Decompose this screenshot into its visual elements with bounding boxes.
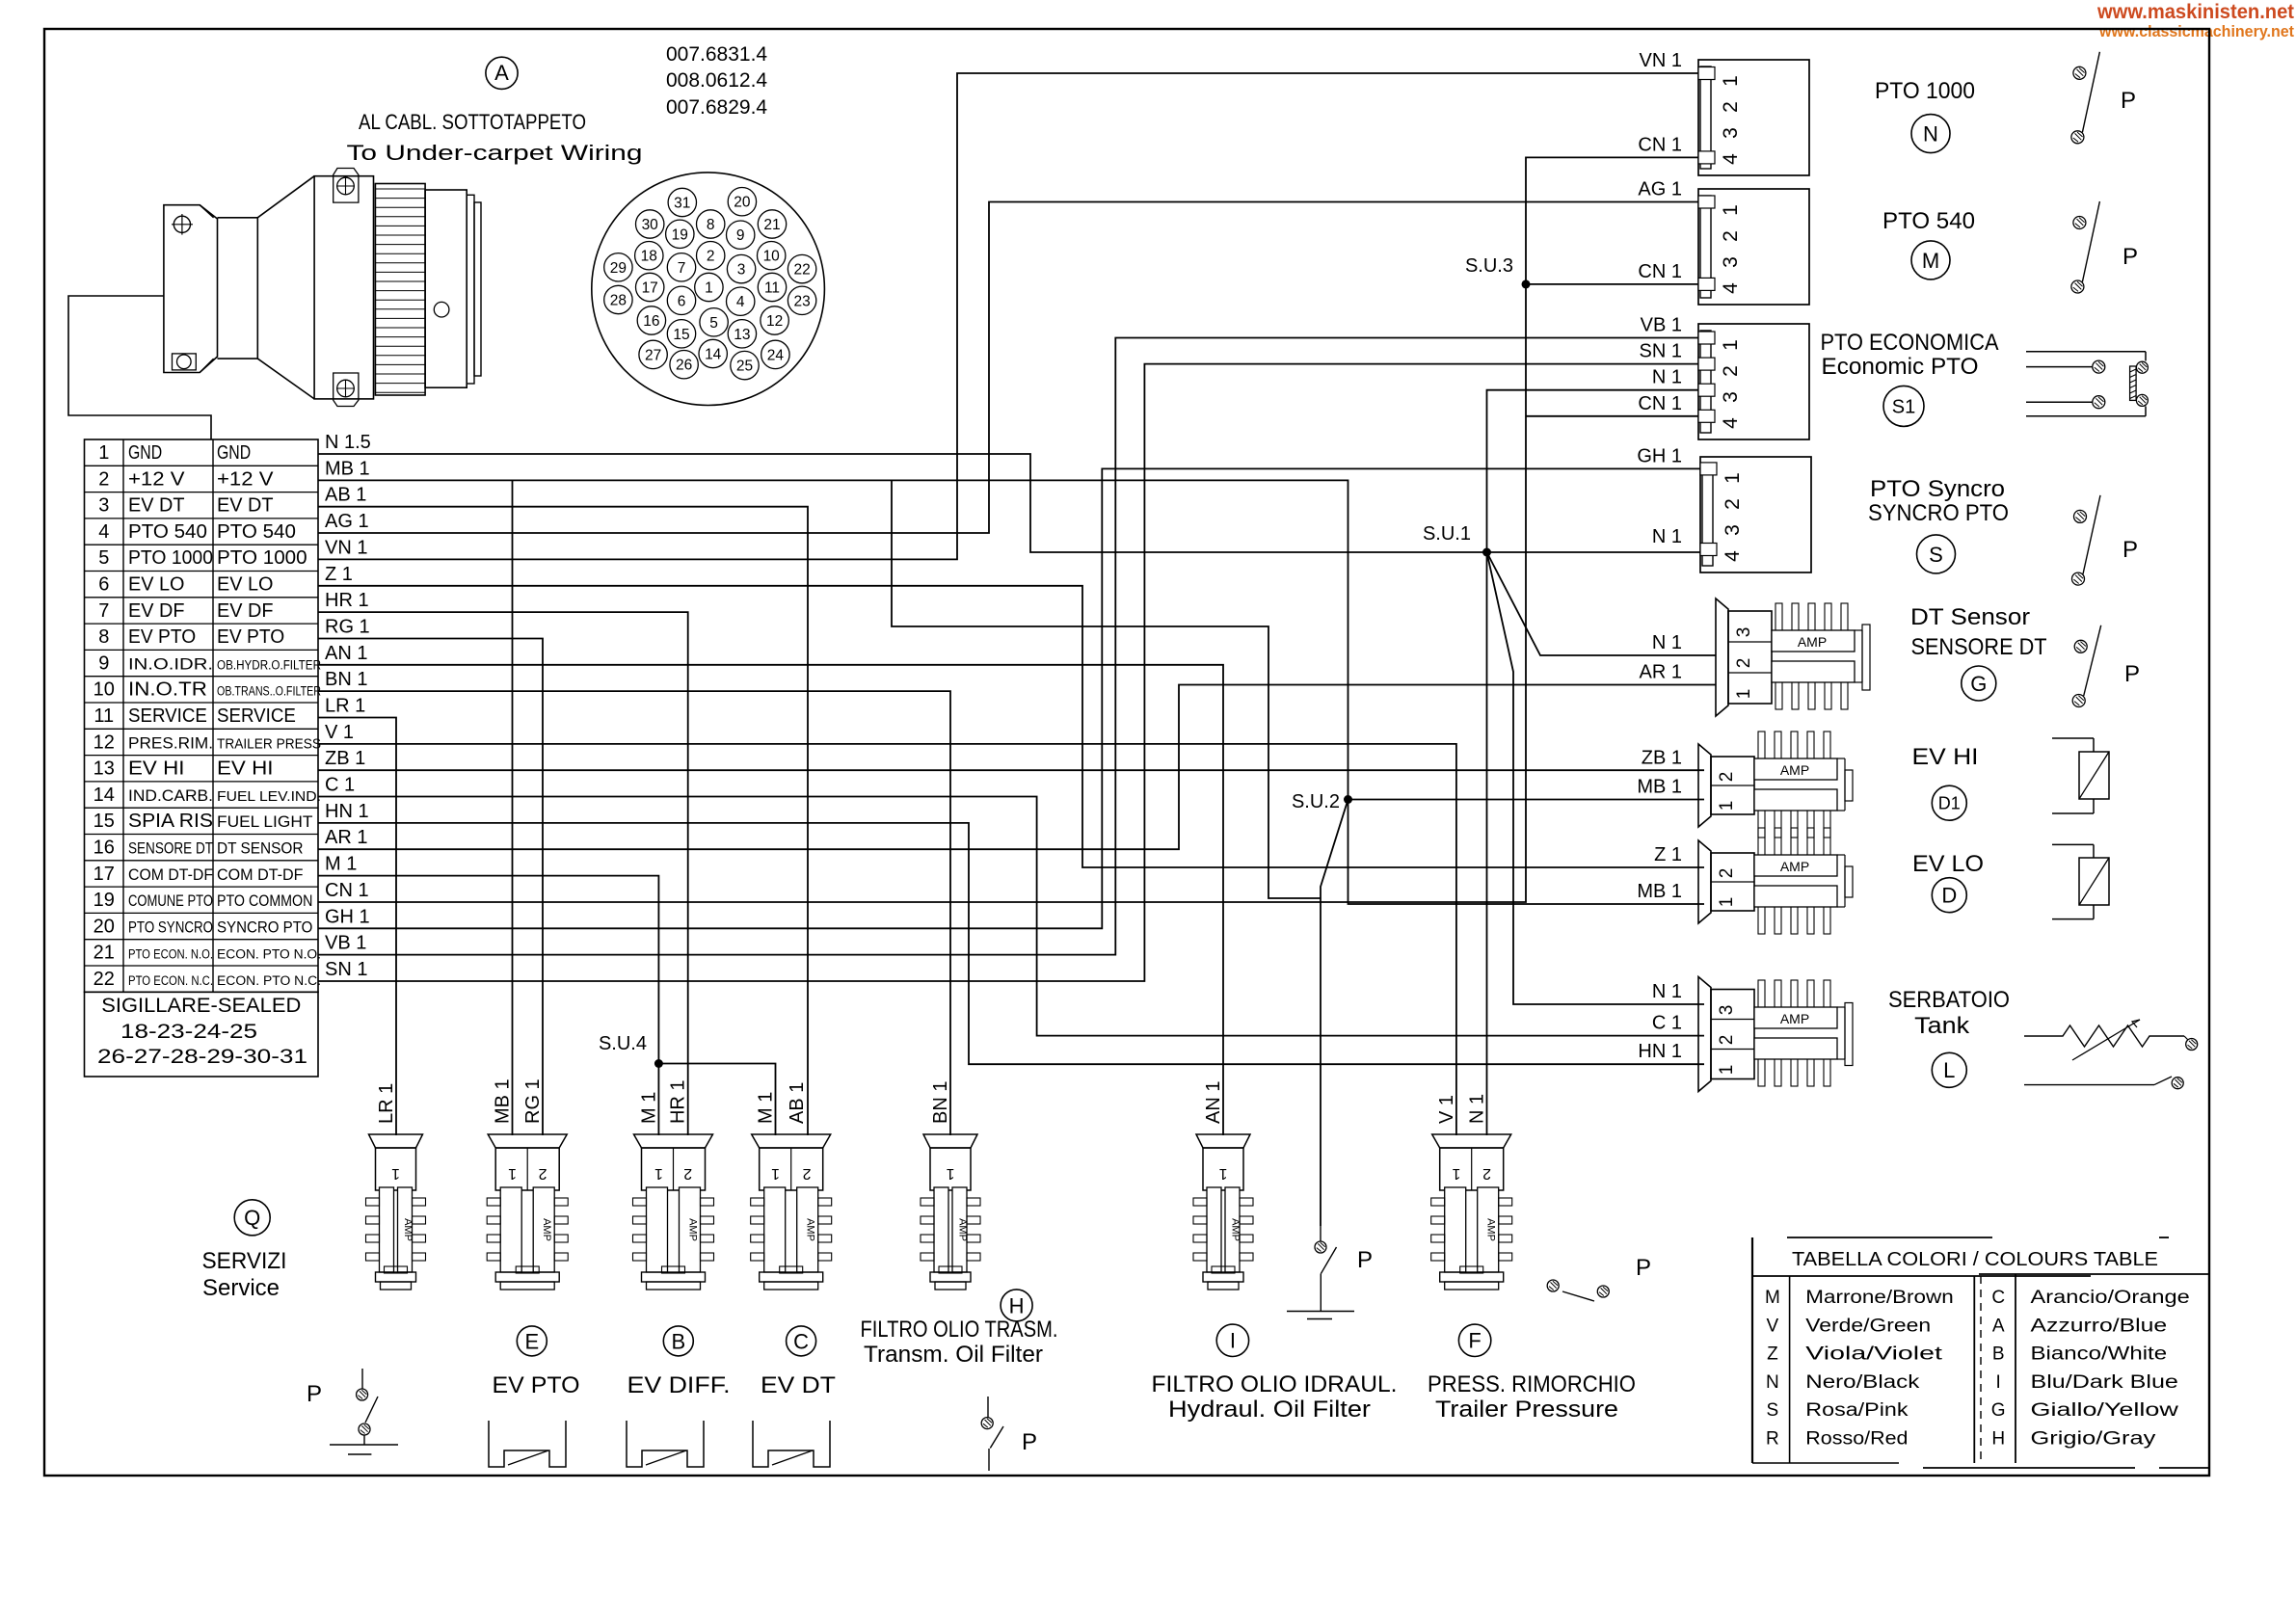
svg-text:17: 17 [93,864,115,885]
svg-text:N 1: N 1 [1467,1094,1488,1124]
svg-text:SPIA RIS: SPIA RIS [128,811,213,832]
svg-text:VN 1: VN 1 [1640,50,1682,71]
svg-text:3: 3 [1720,127,1742,139]
svg-text:PTO 1000: PTO 1000 [217,547,307,569]
wire CN to S1 pin4 [1526,415,1698,417]
connector D1 EV HI AMP [1698,744,1711,827]
circular connector pin 31 [668,188,696,216]
wire CN to M pin4 [1526,283,1698,285]
svg-text:2: 2 [683,1165,692,1182]
svg-text:C 1: C 1 [325,775,355,796]
svg-text:I: I [1230,1329,1236,1353]
svg-text:C: C [793,1329,809,1353]
svg-text:TRAILER PRESS: TRAILER PRESS [217,735,321,752]
svg-text:S1: S1 [1892,397,1915,418]
svg-text:25: 25 [736,359,753,375]
switch P transm oil filter [987,1397,989,1418]
svg-text:AMP: AMP [1780,762,1809,778]
svg-text:10: 10 [93,679,115,701]
svg-text:FILTRO OLIO IDRAUL.: FILTRO OLIO IDRAUL. [1152,1371,1398,1397]
svg-text:D: D [1941,884,1957,908]
svg-text:COM DT-DF: COM DT-DF [217,865,304,884]
svg-text:3: 3 [1720,391,1742,403]
switch P PTO syncro [2074,510,2087,522]
svg-text:M: M [1765,1288,1780,1308]
svg-text:DT SENSOR: DT SENSOR [217,839,304,858]
svg-text:AMP: AMP [1798,634,1827,650]
connector A ribbed collar [375,184,425,396]
svg-text:MB 1: MB 1 [325,458,370,479]
label circle D1 [1932,785,1966,820]
svg-text:11: 11 [764,280,780,297]
svg-text:3: 3 [1734,627,1754,638]
svg-text:1: 1 [771,1165,780,1182]
svg-text:4: 4 [736,294,745,310]
switch P PTO540 [2073,217,2086,229]
svg-text:N: N [1923,122,1938,146]
svg-text:SERVICE: SERVICE [217,705,296,727]
solenoid valve symbol EV PTO [489,1421,566,1467]
svg-text:1: 1 [1717,801,1737,811]
svg-text:22: 22 [93,969,115,990]
svg-text:AMP: AMP [805,1218,816,1241]
svg-text:CN 1: CN 1 [1638,393,1682,414]
circular connector pin 29 [604,253,632,281]
connector A bracket [164,205,218,373]
svg-text:COMUNE PTO: COMUNE PTO [128,891,213,910]
svg-text:IND.CARB.: IND.CARB. [128,786,213,805]
svg-text:EV DF: EV DF [128,600,185,622]
svg-text:N 1: N 1 [1652,526,1682,547]
svg-text:SYNCRO PTO: SYNCRO PTO [217,918,312,936]
circular connector pin 14 [699,339,727,367]
svg-text:MB 1: MB 1 [1637,881,1682,902]
svg-text:N: N [1766,1372,1779,1393]
svg-text:SYNCRO PTO: SYNCRO PTO [1868,500,2009,526]
svg-text:1: 1 [1720,204,1742,216]
svg-text:4: 4 [1720,282,1742,294]
circular connector face [592,173,825,406]
connector A end cap [467,195,474,384]
svg-text:PTO 540: PTO 540 [1882,208,1975,234]
circular connector pin 19 [666,220,694,248]
solenoid valve symbol EV DT [753,1421,830,1467]
svg-text:18: 18 [641,249,657,265]
svg-text:007.6829.4: 007.6829.4 [666,96,767,119]
pin table [85,439,319,992]
svg-text:FILTRO OLIO TRASM.: FILTRO OLIO TRASM. [861,1317,1058,1343]
svg-text:3: 3 [1720,256,1742,268]
svg-text:20: 20 [93,916,115,937]
svg-text:1: 1 [1218,1165,1227,1182]
svg-text:Viola/Violet: Viola/Violet [1805,1344,1943,1365]
svg-text:PTO Syncro: PTO Syncro [1870,476,2005,502]
svg-text:BN 1: BN 1 [325,669,367,690]
svg-text:PTO ECON. N.O.: PTO ECON. N.O. [128,947,213,962]
svg-text:2: 2 [1482,1165,1491,1182]
svg-text:15: 15 [93,811,115,832]
svg-text:P: P [2122,537,2138,563]
svg-text:SN 1: SN 1 [1640,341,1682,362]
svg-text:AR 1: AR 1 [325,827,367,848]
wire M branch to C connector [658,1064,775,1136]
svg-text:PTO 1000: PTO 1000 [1875,78,1975,104]
svg-text:P: P [307,1381,322,1407]
svg-text:EV LO: EV LO [128,574,185,596]
svg-text:ECON. PTO N.C.: ECON. PTO N.C. [217,973,321,988]
svg-text:SERVICE: SERVICE [128,705,207,727]
label circle H [1001,1290,1032,1321]
svg-text:1: 1 [1717,897,1737,908]
svg-text:27: 27 [645,347,661,363]
svg-text:IN.O.TR: IN.O.TR [128,679,207,701]
svg-text:4: 4 [1720,153,1742,165]
svg-text:2: 2 [1717,868,1737,879]
svg-text:P: P [2122,244,2138,270]
svg-text:EV PTO: EV PTO [493,1372,580,1398]
svg-text:TABELLA COLORI / COLOURS TABLE: TABELLA COLORI / COLOURS TABLE [1792,1249,2158,1270]
svg-text:SIGILLARE-SEALED: SIGILLARE-SEALED [101,995,301,1017]
svg-text:2: 2 [98,468,109,490]
svg-text:14: 14 [705,347,722,363]
svg-text:3: 3 [1717,1005,1737,1016]
svg-text:1: 1 [1722,472,1744,484]
svg-text:To Under-carpet Wiring: To Under-carpet Wiring [347,141,643,165]
svg-text:AB 1: AB 1 [787,1082,808,1124]
solenoid symbol EV LO [2052,843,2094,845]
svg-text:EV HI: EV HI [128,758,185,780]
svg-text:www.maskinisten.net: www.maskinisten.net [2096,1,2294,23]
connector A rear shell [425,190,467,387]
label circle N [1911,115,1950,153]
svg-text:OB.TRANS..O.FILTER: OB.TRANS..O.FILTER [217,684,321,699]
svg-text:B: B [671,1329,685,1353]
svg-text:P: P [1357,1247,1373,1273]
wire N to S1 pin3 [1487,390,1699,552]
wire N to L pin3 [1487,552,1705,1004]
svg-text:12: 12 [766,313,783,330]
label circle E [517,1326,547,1356]
svg-text:C 1: C 1 [1652,1013,1682,1034]
circular connector pin 26 [670,351,698,379]
svg-text:AL CABL. SOTTOTAPPETO: AL CABL. SOTTOTAPPETO [359,110,586,134]
circular connector pin 6 [667,286,695,314]
circular connector pin 2 [697,242,725,270]
circular connector pin 1 [695,273,723,301]
svg-text:2: 2 [707,249,715,265]
svg-text:EV DF: EV DF [217,600,274,622]
label circle D [1932,878,1966,913]
circular connector pin 21 [758,210,786,238]
junction S.U.3 [1522,279,1531,288]
switch P trailer pressure [1547,1280,1559,1291]
svg-text:Rosso/Red: Rosso/Red [1805,1429,1908,1450]
svg-text:OB.HYDR.O.FILTER: OB.HYDR.O.FILTER [217,657,321,672]
svg-text:Grigio/Gray: Grigio/Gray [2031,1429,2156,1450]
svg-text:Hydraul. Oil Filter: Hydraul. Oil Filter [1168,1397,1371,1423]
wire N to G pin2 [1487,552,1717,655]
svg-text:SN 1: SN 1 [325,959,367,980]
svg-text:AMP: AMP [1780,1011,1809,1026]
svg-text:Tank: Tank [1914,1013,1970,1039]
svg-text:16: 16 [643,313,659,330]
svg-text:MB 1: MB 1 [1637,777,1682,798]
junction S.U.4 [654,1059,663,1068]
svg-text:AMP: AMP [687,1218,699,1241]
svg-text:AMP: AMP [541,1218,552,1241]
svg-text:12: 12 [93,732,115,753]
svg-text:N 1: N 1 [1652,981,1682,1002]
circular connector pin 10 [758,242,786,270]
svg-text:31: 31 [674,196,690,212]
svg-text:GND: GND [217,442,251,464]
circular connector pin 24 [761,340,789,368]
connector A cone [218,176,315,218]
svg-text:3: 3 [1722,524,1744,536]
label circle Q [234,1200,270,1236]
circular connector pin 17 [636,273,664,301]
svg-text:3: 3 [737,262,746,279]
svg-text:PTO COMMON: PTO COMMON [217,891,312,910]
svg-text:9: 9 [736,227,745,244]
connector S1 PTO economica 4-pin [1698,324,1809,439]
svg-text:G: G [1991,1400,2006,1421]
circular connector pin 18 [635,242,663,270]
svg-text:EV LO: EV LO [217,574,274,596]
wire MB branch to test switch [892,480,1321,898]
connector Q servizi AMP [369,1134,423,1148]
circular connector pin 22 [788,254,815,282]
svg-text:PTO 1000: PTO 1000 [128,547,213,569]
svg-text:P: P [2124,661,2140,687]
svg-text:Giallo/Yellow: Giallo/Yellow [2031,1400,2179,1421]
svg-text:AMP: AMP [1485,1218,1497,1241]
svg-text:ECON. PTO N.O.: ECON. PTO N.O. [217,947,321,962]
svg-text:LR 1: LR 1 [325,696,365,717]
circular connector pin 3 [727,254,755,282]
svg-text:21: 21 [93,943,115,964]
junction S.U.1 [1482,548,1491,557]
connector A bottom screw [173,354,197,370]
colours table [1751,1237,1753,1463]
svg-text:AMP: AMP [1780,859,1809,874]
svg-text:EV DT: EV DT [761,1372,836,1398]
svg-text:PRES.RIM.: PRES.RIM. [128,733,213,752]
tank level sensor symbol [2024,1025,2184,1047]
svg-text:20: 20 [734,195,751,211]
svg-text:AG 1: AG 1 [325,511,369,532]
svg-text:G: G [1970,672,1987,696]
svg-text:6: 6 [98,574,109,596]
circular connector pin 4 [727,287,755,315]
svg-text:1: 1 [654,1165,663,1182]
label circle F [1458,1324,1490,1356]
svg-text:28: 28 [610,293,627,309]
svg-text:007.6831.4: 007.6831.4 [666,43,767,66]
connector G DT sensor AMP [1716,599,1728,716]
svg-text:www.classicmachinery.net: www.classicmachinery.net [2098,22,2294,40]
connector H filtro olio trasm AMP [923,1134,977,1148]
label circle M [1911,241,1950,279]
wire N to F connector [1486,552,1488,1135]
svg-text:P: P [2121,88,2136,114]
svg-text:Verde/Green: Verde/Green [1805,1316,1931,1336]
svg-text:4: 4 [1722,550,1744,562]
svg-text:COM DT-DF: COM DT-DF [128,865,213,884]
svg-text:DT Sensor: DT Sensor [1910,604,2030,630]
svg-text:M 1: M 1 [325,854,357,875]
svg-text:15: 15 [673,327,689,343]
svg-text:Marrone/Brown: Marrone/Brown [1805,1288,1953,1308]
svg-text:Economic PTO: Economic PTO [1822,354,1979,380]
label circle B [663,1326,693,1356]
svg-text:MB 1: MB 1 [493,1078,514,1124]
circular connector pin 23 [788,286,815,314]
svg-text:S: S [1767,1400,1779,1421]
solenoid symbol EV HI [2052,737,2094,739]
svg-text:BN 1: BN 1 [930,1081,951,1124]
svg-text:S.U.2: S.U.2 [1292,791,1340,812]
svg-text:2: 2 [1720,101,1742,113]
svg-text:AG 1: AG 1 [1638,179,1682,200]
circular connector pin 15 [667,320,695,348]
svg-text:Trailer Pressure: Trailer Pressure [1435,1397,1618,1423]
wire MB to E pin1 [512,480,514,1135]
svg-text:V 1: V 1 [1436,1095,1457,1124]
svg-text:7: 7 [98,600,109,622]
svg-text:16: 16 [93,838,115,859]
svg-text:1: 1 [946,1165,954,1182]
svg-text:17: 17 [642,280,658,297]
svg-text:SENSORE DT: SENSORE DT [1911,634,2047,660]
svg-text:GH 1: GH 1 [325,906,370,927]
svg-text:1: 1 [508,1165,517,1182]
svg-text:26: 26 [676,358,692,374]
svg-text:Blu/Dark Blue: Blu/Dark Blue [2031,1372,2178,1393]
svg-text:GND: GND [128,442,162,464]
ground servizi [330,1444,398,1446]
svg-text:FUEL LEV.IND.: FUEL LEV.IND. [217,788,321,805]
svg-text:008.0612.4: 008.0612.4 [666,69,767,92]
svg-text:N 1: N 1 [1652,367,1682,388]
svg-text:3: 3 [98,495,109,517]
circular connector pin 28 [604,285,632,313]
label circle S1 [1883,386,1924,426]
svg-text:S.U.4: S.U.4 [599,1033,647,1054]
svg-text:EV PTO: EV PTO [128,626,196,648]
connector L tank AMP [1698,977,1711,1092]
svg-text:N 1.5: N 1.5 [325,432,371,453]
switch P PTO1000 [2073,67,2086,79]
connector D EV LO AMP [1698,840,1711,923]
connector B EV DIFF AMP [634,1134,713,1148]
svg-text:PTO ECON. N.C.: PTO ECON. N.C. [128,973,213,988]
circular connector pin 20 [728,188,756,216]
svg-text:21: 21 [763,217,780,233]
svg-text:EV DT: EV DT [217,495,274,517]
svg-text:N 1: N 1 [1652,632,1682,653]
circular connector pin 16 [637,306,665,334]
svg-text:18-23-24-25: 18-23-24-25 [120,1021,257,1043]
svg-text:1: 1 [705,280,713,297]
circular connector pin 12 [761,306,788,334]
svg-text:CN 1: CN 1 [1638,261,1682,282]
svg-text:5: 5 [98,547,109,569]
circular connector pin 8 [697,210,725,238]
svg-text:HN 1: HN 1 [325,801,369,822]
svg-text:F: F [1468,1329,1481,1353]
label circle C [787,1326,816,1356]
svg-text:EV LO: EV LO [1912,851,1984,877]
svg-text:1: 1 [391,1165,400,1182]
label circle S [1917,535,1956,573]
svg-text:P: P [1636,1255,1651,1281]
circular connector pin 9 [727,221,755,249]
connector N PTO1000 4-pin [1698,60,1809,175]
svg-text:IN.O.IDR.: IN.O.IDR. [128,654,213,673]
connector A bottom tab [334,373,359,407]
svg-text:Arancio/Orange: Arancio/Orange [2031,1288,2190,1308]
label circle G [1962,666,1996,701]
svg-text:AN 1: AN 1 [1203,1081,1224,1124]
svg-text:Z: Z [1767,1344,1778,1365]
svg-text:24: 24 [767,347,785,363]
svg-text:6: 6 [678,293,686,309]
svg-text:26-27-28-29-30-31: 26-27-28-29-30-31 [97,1046,307,1068]
svg-text:M: M [1922,249,1939,273]
svg-text:PTO 540: PTO 540 [128,521,207,543]
svg-text:H: H [1009,1293,1025,1317]
svg-text:Azzurro/Blue: Azzurro/Blue [2031,1316,2168,1336]
svg-text:8: 8 [707,217,715,233]
svg-text:29: 29 [610,260,627,277]
svg-text:Nero/Black: Nero/Black [1805,1372,1920,1393]
svg-text:+12 V: +12 V [128,468,185,490]
switch P servizi with ground [361,1369,363,1389]
svg-text:Q: Q [244,1206,260,1230]
svg-text:A: A [494,61,509,85]
connector A top tab [334,169,359,203]
svg-text:M 1: M 1 [756,1092,777,1124]
svg-text:HR 1: HR 1 [325,590,369,611]
svg-text:Rosa/Pink: Rosa/Pink [1805,1400,1909,1421]
switch P DT sensor [2074,640,2087,652]
svg-text:30: 30 [642,217,659,233]
svg-text:8: 8 [98,626,109,648]
svg-text:LR 1: LR 1 [376,1083,397,1124]
svg-text:RG 1: RG 1 [325,617,370,638]
svg-text:1: 1 [98,442,109,464]
label circle L [1932,1052,1966,1087]
svg-text:CN 1: CN 1 [1638,134,1682,155]
svg-text:HN 1: HN 1 [1638,1041,1682,1062]
svg-text:2: 2 [1717,772,1737,783]
svg-text:S.U.3: S.U.3 [1465,255,1513,277]
svg-text:1: 1 [1717,1065,1737,1076]
circular connector pin 25 [731,351,759,379]
svg-text:Bianco/White: Bianco/White [2031,1344,2168,1365]
svg-text:2: 2 [1717,1035,1737,1046]
svg-text:PTO SYNCRO: PTO SYNCRO [128,918,213,936]
ground hydraul filter [1287,1311,1354,1313]
circular connector pin 7 [667,253,695,281]
svg-text:2: 2 [1734,658,1754,669]
svg-text:E: E [524,1329,539,1353]
svg-text:R: R [1766,1429,1779,1450]
svg-text:EV DIFF.: EV DIFF. [627,1372,731,1398]
switch S1 economic PTO [2026,351,2146,353]
svg-text:AN 1: AN 1 [325,643,367,664]
